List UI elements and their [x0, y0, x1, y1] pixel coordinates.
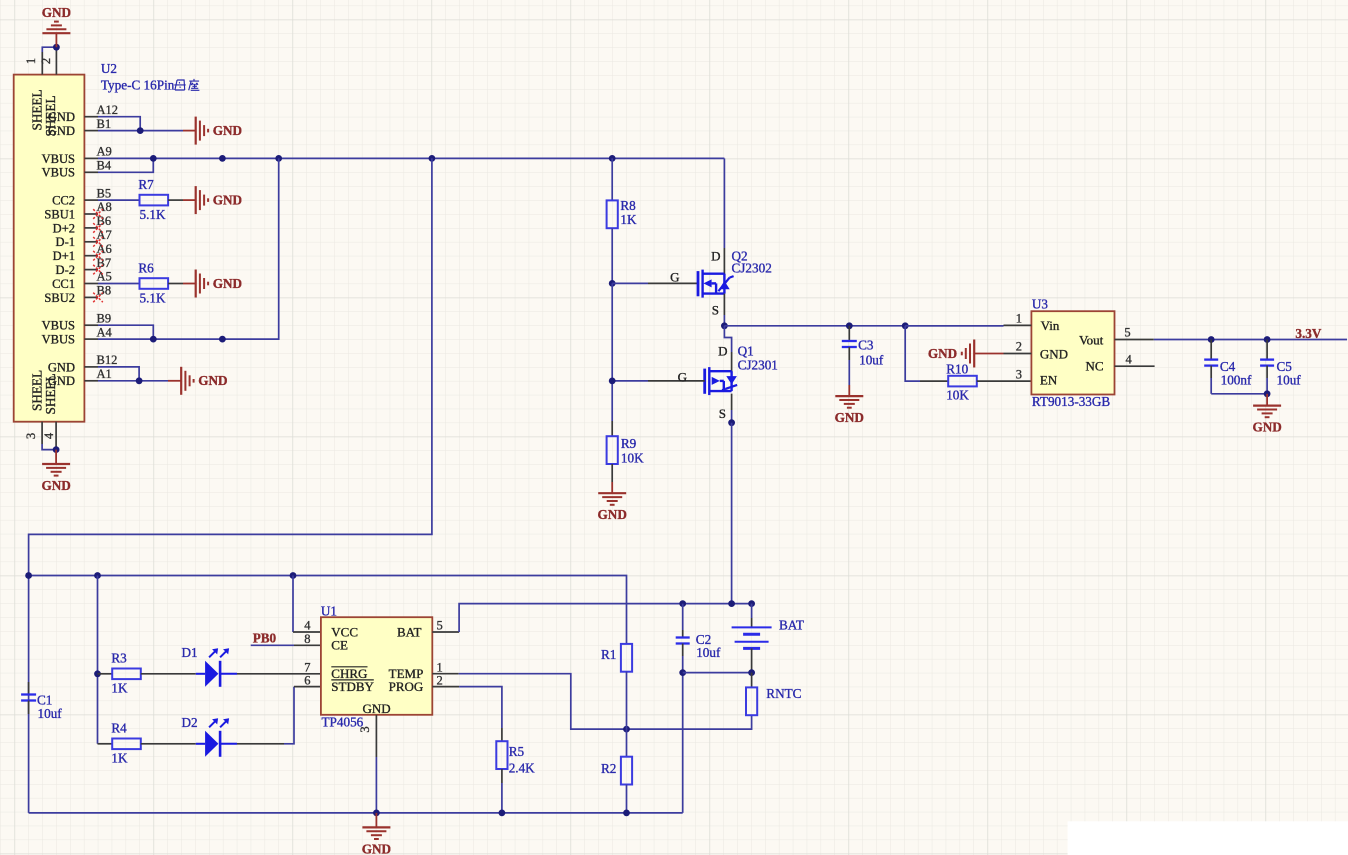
- svg-text:A1: A1: [97, 367, 112, 381]
- svg-text:PROG: PROG: [389, 679, 424, 694]
- svg-text:GND: GND: [42, 5, 71, 20]
- wire VCC up: [292, 576, 294, 633]
- svg-text:R4: R4: [111, 720, 127, 735]
- node rail C2: [679, 600, 686, 607]
- wire into R4: [98, 743, 113, 745]
- wire R3R4 vertical: [97, 576, 99, 744]
- node R3 tap: [94, 670, 101, 677]
- capacitor C3 leads: [848, 326, 850, 341]
- svg-text:3: 3: [358, 726, 372, 732]
- capacitor C3: [842, 340, 857, 342]
- svg-text:C5: C5: [1277, 359, 1293, 374]
- svg-text:D-2: D-2: [56, 263, 75, 277]
- svg-text:BAT: BAT: [779, 618, 804, 633]
- svg-text:CC1: CC1: [52, 277, 75, 291]
- ground top (GND): [55, 33, 57, 47]
- svg-text:1: 1: [24, 58, 38, 64]
- wire A1 to ground: [98, 380, 168, 382]
- node rail start: [25, 572, 32, 579]
- svg-text:2: 2: [437, 673, 443, 687]
- resistor R1: [621, 644, 632, 672]
- svg-text:4: 4: [304, 619, 311, 633]
- ground R7 (GND): [195, 186, 197, 214]
- svg-text:D+1: D+1: [53, 249, 75, 263]
- svg-text:10K: 10K: [946, 388, 969, 403]
- wire jog to Q1 drain: [724, 326, 731, 352]
- svg-text:VBUS: VBUS: [42, 333, 75, 347]
- svg-text:2: 2: [39, 58, 53, 64]
- wire 3.3V rail: [1154, 339, 1347, 341]
- wire EN branch: [905, 326, 920, 381]
- wire R4 to D2: [141, 743, 196, 745]
- resistor R7: [140, 195, 169, 206]
- wire BATminus link: [683, 672, 752, 674]
- svg-text:GND: GND: [213, 123, 242, 138]
- svg-text:Q1: Q1: [738, 343, 754, 358]
- wire D1 to CHRG pin: [220, 673, 237, 675]
- ground main (GND): [375, 813, 377, 828]
- svg-text:1: 1: [1016, 312, 1022, 326]
- node Q2 source: [721, 322, 728, 329]
- svg-text:PB0: PB0: [253, 631, 277, 646]
- connector U2 body: [14, 75, 85, 422]
- svg-text:S: S: [712, 303, 719, 318]
- ground U3 pin2 (GND): [974, 353, 1003, 355]
- capacitor C4 leads: [1210, 340, 1212, 360]
- svg-text:6: 6: [304, 673, 310, 687]
- svg-text:3: 3: [1016, 367, 1022, 381]
- svg-text:10uf: 10uf: [38, 706, 63, 721]
- U2 pin stubs and numbers: [84, 116, 98, 118]
- wire A12 to B1: [98, 117, 140, 131]
- capacitor C5: [1260, 358, 1274, 360]
- U3 pin stubs: [1004, 324, 1032, 326]
- no-connect X marks: [93, 209, 103, 219]
- svg-text:D2: D2: [182, 715, 198, 730]
- wire VBUS main: [98, 157, 724, 159]
- svg-text:CJ2302: CJ2302: [732, 261, 772, 276]
- svg-text:R5: R5: [509, 744, 525, 759]
- svg-text:SHEEL: SHEEL: [43, 373, 58, 414]
- wire C2 branch: [682, 604, 684, 630]
- wire B1 to ground: [98, 130, 183, 132]
- resistor R9: [607, 436, 618, 464]
- svg-text:5: 5: [1124, 326, 1130, 340]
- svg-text:8: 8: [304, 632, 310, 646]
- wire into R3: [98, 673, 113, 675]
- node TEMP-R2: [623, 726, 630, 733]
- wire CC1 to R6: [98, 283, 140, 285]
- wire PB0 to CE: [251, 644, 294, 646]
- wire A4 to VBUS: [98, 158, 279, 339]
- svg-text:A12: A12: [97, 103, 119, 117]
- wire R6 to ground: [168, 283, 183, 285]
- svg-text:D1: D1: [182, 645, 198, 660]
- wire Q1 source: [731, 394, 733, 410]
- node Q1 source: [728, 419, 735, 426]
- node junction B1: [137, 127, 144, 134]
- svg-text:Vin: Vin: [1041, 318, 1060, 333]
- battery BAT: [751, 604, 753, 618]
- svg-text:GND: GND: [48, 360, 75, 374]
- svg-text:D+2: D+2: [53, 221, 75, 235]
- svg-text:CE: CE: [331, 638, 348, 653]
- svg-text:U3: U3: [1032, 297, 1049, 312]
- svg-text:R10: R10: [946, 361, 968, 376]
- node C5 bottom: [1264, 390, 1271, 397]
- thermistor RNTC: [751, 673, 753, 688]
- svg-text:A9: A9: [97, 145, 112, 159]
- ground R9 (GND): [598, 492, 626, 494]
- svg-text:GND: GND: [928, 346, 957, 361]
- transistor Q2: [697, 271, 700, 296]
- U2 bottom pins 3,4: [41, 422, 43, 444]
- resistor R10: [948, 376, 977, 387]
- node BAT bottom: [748, 669, 755, 676]
- svg-text:D: D: [718, 343, 727, 358]
- svg-text:5.1K: 5.1K: [140, 290, 166, 305]
- wire CC2 to R7: [98, 199, 140, 201]
- svg-text:GND: GND: [598, 507, 627, 522]
- svg-text:GND: GND: [1040, 346, 1068, 361]
- svg-text:A8: A8: [97, 200, 112, 214]
- ground A1 (GND): [180, 367, 182, 395]
- svg-text:R3: R3: [111, 650, 127, 665]
- wire Q1 source to battery rail: [731, 423, 733, 604]
- ground bottom (GND): [55, 450, 57, 464]
- svg-text:VBUS: VBUS: [42, 152, 75, 166]
- svg-text:4: 4: [1126, 352, 1133, 366]
- svg-text:GND: GND: [198, 373, 227, 388]
- wire Q2 source: [723, 294, 725, 315]
- ground C3 (GND): [835, 395, 863, 397]
- svg-text:SBU1: SBU1: [44, 207, 75, 221]
- node rail BAT: [748, 600, 755, 607]
- svg-text:A6: A6: [97, 242, 112, 256]
- wire source to regulator: [724, 325, 1003, 327]
- node VCC branch: [290, 572, 297, 579]
- capacitor C1: [21, 693, 36, 695]
- svg-text:GND: GND: [1252, 420, 1281, 435]
- resistor R3: [112, 669, 141, 680]
- node EN branch: [902, 322, 909, 329]
- svg-text:RNTC: RNTC: [766, 686, 801, 701]
- wire Vin: [905, 325, 1003, 327]
- svg-text:5.1K: 5.1K: [140, 207, 166, 222]
- svg-text:GND: GND: [213, 193, 242, 208]
- capacitor C5 leads: [1266, 340, 1268, 360]
- resistor RNTC: [746, 687, 757, 715]
- svg-text:R6: R6: [138, 260, 154, 275]
- svg-text:U2: U2: [101, 61, 117, 76]
- svg-text:BAT: BAT: [397, 624, 422, 639]
- svg-text:R9: R9: [621, 436, 637, 451]
- svg-text:CC2: CC2: [52, 194, 75, 208]
- wire R10 to EN pin: [977, 380, 1032, 382]
- svg-text:C4: C4: [1220, 359, 1236, 374]
- node gnd R2: [623, 810, 630, 817]
- svg-text:3.3V: 3.3V: [1295, 326, 1321, 341]
- wire VBUS drop to lower section: [29, 158, 432, 813]
- svg-text:B7: B7: [97, 256, 112, 270]
- svg-text:Vout: Vout: [1079, 332, 1104, 347]
- wire R8 branch: [611, 158, 613, 200]
- svg-text:4: 4: [42, 432, 56, 439]
- svg-text:GND: GND: [363, 701, 391, 716]
- node A4 junctions: [150, 336, 157, 343]
- wire gate Q1: [612, 380, 648, 382]
- svg-text:D-1: D-1: [56, 235, 75, 249]
- svg-text:CJ2301: CJ2301: [738, 357, 778, 372]
- svg-text:B5: B5: [97, 186, 112, 200]
- node VBUS junctions: [150, 155, 157, 162]
- resistor R8: [607, 200, 618, 228]
- svg-text:R1: R1: [601, 647, 616, 662]
- resistor R2: [621, 757, 632, 785]
- wire TEMP run: [432, 673, 458, 675]
- wire PROG to R5: [432, 686, 459, 688]
- LED D2: [205, 731, 218, 757]
- resistor R4: [112, 739, 141, 750]
- node R3R4 branch: [94, 572, 101, 579]
- wire ground rail: [29, 812, 683, 814]
- node gnd U1: [373, 810, 380, 817]
- svg-text:Type-C 16Pin: Type-C 16Pin: [101, 78, 175, 93]
- capacitor C1 leads: [28, 682, 30, 695]
- wire R7 to ground: [168, 199, 183, 201]
- charger U1 body: [321, 617, 432, 715]
- wire R9 to ground: [611, 464, 613, 482]
- wire B12 to A1: [98, 367, 139, 381]
- overline STDBY: [331, 679, 374, 681]
- svg-text:B12: B12: [97, 353, 118, 367]
- svg-text:R2: R2: [601, 761, 616, 776]
- wire R3 to D1: [141, 673, 196, 675]
- svg-text:SBU2: SBU2: [44, 291, 75, 305]
- wire B9 down: [98, 325, 153, 339]
- svg-text:VBUS: VBUS: [42, 319, 75, 333]
- wire gate Q2: [612, 282, 648, 284]
- wire D2 to STDBY pin: [220, 743, 237, 745]
- wire BAT pin to battery rail: [432, 631, 459, 633]
- svg-text:NC: NC: [1086, 359, 1104, 374]
- svg-text:10uf: 10uf: [696, 645, 721, 660]
- svg-text:GND: GND: [362, 841, 391, 855]
- node gnd R5: [499, 810, 506, 817]
- watermark blank: [1068, 821, 1348, 855]
- svg-text:1: 1: [437, 660, 443, 674]
- svg-text:D: D: [711, 248, 720, 263]
- resistor R6: [140, 278, 169, 289]
- wire C4 bottom to C5 bottom: [1211, 393, 1267, 395]
- wire Q2 drain from VBUS: [723, 158, 725, 248]
- wire B4 join: [98, 158, 153, 172]
- svg-text:G: G: [678, 369, 687, 384]
- svg-text:2.4K: 2.4K: [509, 761, 535, 776]
- svg-text:1K: 1K: [111, 751, 128, 766]
- wire GND pin down: [375, 715, 377, 757]
- svg-text:1K: 1K: [620, 212, 637, 227]
- svg-text:R7: R7: [138, 177, 154, 192]
- node C4: [1208, 336, 1215, 343]
- transistor Q1: [703, 369, 706, 394]
- svg-text:B9: B9: [97, 311, 112, 325]
- node junction A1: [136, 377, 143, 384]
- capacitor C4: [1204, 358, 1218, 360]
- node C2 bottom tee: [679, 669, 686, 676]
- svg-text:C3: C3: [858, 337, 874, 352]
- svg-text:3: 3: [24, 433, 38, 439]
- regulator U3 body: [1031, 311, 1114, 394]
- svg-text:GND: GND: [41, 478, 70, 493]
- capacitor C2: [676, 636, 690, 638]
- svg-text:STDBY: STDBY: [331, 679, 374, 694]
- svg-text:GND: GND: [213, 276, 242, 291]
- LED D1: [205, 661, 218, 687]
- svg-text:A7: A7: [97, 228, 112, 242]
- svg-text:B4: B4: [97, 159, 112, 173]
- svg-text:10K: 10K: [621, 450, 644, 465]
- ground R6 (GND): [195, 270, 197, 298]
- svg-text:10uf: 10uf: [1277, 373, 1302, 388]
- wire mid rail: [29, 576, 627, 644]
- node gate Q2: [609, 280, 616, 287]
- ground B1 (GND): [195, 117, 197, 145]
- svg-text:RT9013-33GB: RT9013-33GB: [1032, 394, 1111, 409]
- resistor R5: [496, 741, 507, 769]
- svg-text:VBUS: VBUS: [42, 166, 75, 180]
- svg-text:100nf: 100nf: [1221, 373, 1252, 388]
- svg-text:A5: A5: [97, 270, 112, 284]
- overline CHRG: [331, 666, 367, 668]
- U2 top pins 1,2: [41, 52, 43, 75]
- node rail Q1: [728, 600, 735, 607]
- svg-text:10uf: 10uf: [859, 352, 884, 367]
- svg-text:2: 2: [1016, 340, 1022, 354]
- wire R8R9 mid to Q1 gate: [611, 283, 613, 421]
- svg-text:B6: B6: [97, 214, 112, 228]
- svg-text:B8: B8: [97, 284, 112, 298]
- svg-text:SHEEL: SHEEL: [43, 95, 58, 136]
- svg-text:7: 7: [304, 660, 310, 674]
- svg-text:A4: A4: [97, 325, 113, 339]
- svg-text:GND: GND: [835, 410, 864, 425]
- wire bottom shell: [42, 444, 56, 450]
- svg-text:R8: R8: [620, 198, 636, 213]
- svg-text:S: S: [719, 406, 726, 421]
- svg-text:5: 5: [437, 619, 443, 633]
- node C5: [1264, 336, 1271, 343]
- svg-text:B1: B1: [97, 117, 112, 131]
- node C3 tap: [846, 322, 853, 329]
- ground C5 (GND): [1266, 394, 1268, 406]
- svg-text:G: G: [670, 270, 679, 285]
- wire top shell: [42, 47, 56, 52]
- svg-text:EN: EN: [1040, 372, 1058, 387]
- svg-text:U1: U1: [321, 603, 337, 618]
- svg-text:1K: 1K: [111, 681, 128, 696]
